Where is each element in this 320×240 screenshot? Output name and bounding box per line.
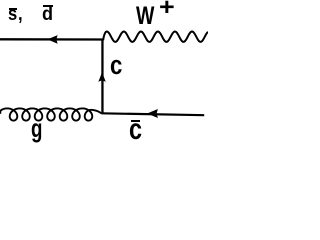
arrow on s-bar/d-bar line	[47, 35, 57, 44]
comma	[18, 5, 23, 25]
label c internal	[110, 54, 122, 80]
W boson wavy line	[103, 32, 208, 42]
label s-bar	[8, 5, 17, 25]
label W+	[136, 4, 154, 29]
label c-bar	[129, 115, 142, 145]
label d-bar	[42, 5, 53, 24]
gluon coil	[0, 108, 101, 120]
label g	[31, 115, 42, 141]
c quark internal line	[101, 39, 103, 114]
arrow up on c line	[98, 72, 105, 82]
antiquark line s-bar/d-bar	[0, 38, 103, 41]
arrow on c-bar line	[147, 109, 158, 118]
c-bar antiquark line	[101, 113, 204, 115]
